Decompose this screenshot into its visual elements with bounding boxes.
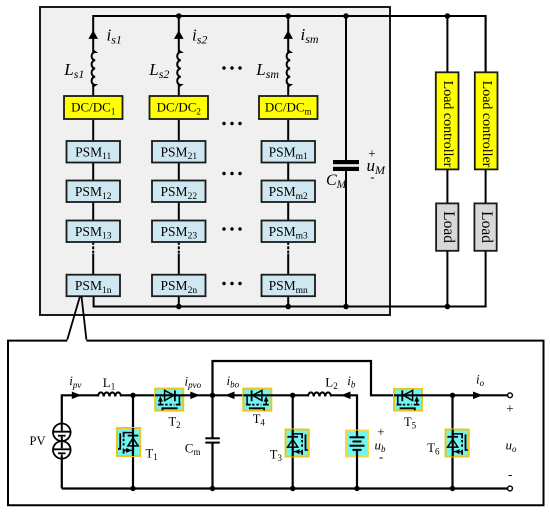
column m: [255, 16, 319, 307]
current arrow ib (left): [341, 392, 351, 400]
wire bottom rail: [62, 487, 508, 489]
wire col1 dashed segment: [92, 242, 94, 254]
dots row between PSM rows: [222, 172, 225, 175]
transistor T2: [155, 389, 183, 411]
node Cm top: [210, 393, 215, 398]
submodule detail box: [8, 341, 544, 506]
node T3 bottom: [290, 486, 295, 491]
DC/DC converter 1: [64, 96, 123, 119]
wire PV bottom: [61, 459, 63, 489]
load controller 1: [436, 72, 459, 169]
transistor T4: [243, 389, 271, 411]
inductor Ls2: [177, 51, 181, 87]
output terminal top: [508, 393, 513, 398]
wire T5 to node T6: [422, 394, 453, 396]
current arrow is1: [88, 30, 98, 39]
svg-text:Load controller: Load controller: [440, 81, 455, 168]
PSM13: [67, 221, 121, 243]
DC/DC converter m: [259, 96, 318, 119]
PSMm3: [262, 221, 316, 243]
PSM21: [152, 141, 206, 163]
capacitor Cm column: [211, 395, 213, 438]
wire col3 dashed segment: [287, 242, 289, 254]
dots row below DC/DC: [222, 122, 225, 125]
zoom callout lines: [67, 296, 80, 339]
output terminal bottom: [508, 486, 513, 491]
load 2: [474, 203, 496, 250]
current arrow ism: [283, 30, 293, 39]
node CM bottom: [343, 304, 349, 310]
transistor T1: [117, 428, 140, 456]
transistor T5: [394, 389, 422, 411]
svg-text:+: +: [506, 401, 513, 416]
wire node T6 to output: [453, 394, 508, 396]
PV cell bars: [53, 431, 70, 433]
wire load rail 1: [446, 16, 448, 72]
wire T4 to node T3: [271, 394, 308, 396]
current arrow io: [473, 392, 483, 400]
PSM1n: [67, 275, 121, 297]
wire L1 to T2: [121, 394, 155, 396]
svg-text:Load controller: Load controller: [479, 81, 494, 168]
PSMmn: [262, 275, 316, 297]
column 2: [148, 16, 208, 307]
node T1 top: [130, 393, 135, 398]
PSM12: [67, 181, 121, 203]
current arrow is2: [174, 30, 184, 39]
current arrow ibo (left): [225, 392, 235, 400]
node load rail 1 top: [445, 13, 451, 19]
wire PV top to main rail: [62, 395, 98, 423]
capacitor CM plates: [333, 160, 359, 164]
inductor L2: [308, 392, 331, 396]
transistor T6: [446, 430, 469, 457]
wire T3 column: [292, 395, 294, 488]
inductor Lsm: [287, 51, 291, 87]
svg-text:-: -: [370, 169, 374, 184]
svg-text:DC/DC2: DC/DC2: [157, 100, 201, 117]
wire top bus: [93, 16, 485, 72]
node battery bottom: [354, 486, 359, 491]
PSM22: [152, 181, 206, 203]
wire battery to bottom: [356, 457, 358, 489]
current arrow ipvo: [190, 392, 200, 400]
wire L2 to battery: [331, 395, 357, 430]
PSMm1: [262, 141, 316, 163]
bypass wire to T5: [213, 361, 395, 395]
transistor T3: [286, 430, 309, 457]
svg-text:PV: PV: [30, 434, 46, 448]
node load rail 1 bottom: [445, 304, 451, 310]
wire LC1 to Load1: [446, 169, 448, 203]
PSM11: [67, 141, 121, 163]
inductor L1: [98, 392, 121, 396]
inductor Ls1: [92, 51, 96, 87]
wire col3 vertical: [287, 16, 289, 52]
node col3 top: [285, 13, 291, 19]
node Cm bottom: [210, 486, 215, 491]
svg-text:-: -: [379, 449, 383, 464]
capacitor Cm plates: [205, 437, 220, 439]
PV source circles: [53, 424, 71, 442]
load 1: [436, 203, 458, 250]
node col3 bottom: [285, 304, 291, 310]
load controller 2: [475, 72, 498, 169]
wire LC2 to Load2: [485, 169, 487, 203]
wire T2 to node Cm: [183, 394, 213, 396]
wire bottom bus: [94, 251, 486, 307]
node T1 bottom: [130, 486, 135, 491]
ellipsis dots between columns: [222, 66, 241, 285]
system block (gray panel): [40, 7, 390, 315]
capacitor CM column wire: [345, 16, 347, 160]
svg-text:DC/DC1: DC/DC1: [71, 100, 115, 117]
wire col2 vertical: [178, 16, 180, 52]
battery ub: [346, 431, 368, 457]
load rail 2 corner: [485, 16, 487, 72]
DC/DC converter 2: [150, 96, 209, 119]
node CM top: [343, 13, 349, 19]
dots row PSM row3: [222, 227, 225, 230]
column 1: [63, 26, 122, 297]
wire col2 dashed segment: [178, 242, 180, 254]
wire Load1 to bottom bus: [446, 251, 448, 307]
node T6 bottom: [450, 486, 455, 491]
node T6 top: [450, 393, 455, 398]
wire T1 column: [132, 395, 134, 488]
svg-text:Load: Load: [440, 211, 457, 243]
wire node Cm to T4: [213, 394, 244, 396]
node col2 bottom: [176, 304, 182, 310]
PSM2n: [152, 275, 206, 297]
dots row L level: [222, 66, 225, 69]
svg-text:-: -: [508, 467, 512, 482]
PSMm2: [262, 181, 316, 203]
dots row PSM row n: [222, 282, 225, 285]
node col2 top: [176, 13, 182, 19]
wire col1 vertical: [92, 85, 94, 96]
wire T6 column: [451, 395, 453, 488]
current arrow ipv: [72, 392, 82, 400]
PSM23: [152, 221, 206, 243]
svg-text:Load: Load: [478, 211, 495, 243]
node T3 top: [290, 393, 295, 398]
